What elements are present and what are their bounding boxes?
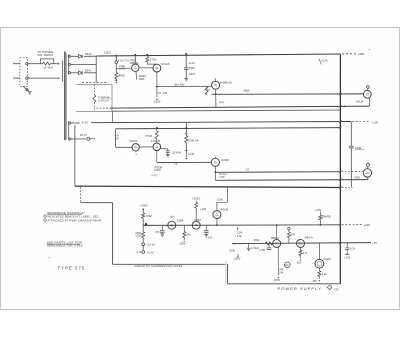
svg-text:8600: 8600: [119, 73, 126, 77]
error amplifier tube V3 6AW8: [212, 81, 220, 89]
svg-text:LOCK: LOCK: [154, 168, 161, 172]
bus junction at L9: [339, 187, 341, 189]
secondary terminal 2: [68, 63, 70, 65]
wire resistor to row A: [142, 218, 144, 225]
svg-text:+350: +350: [358, 52, 365, 56]
V11 feed from ground return: [227, 187, 229, 203]
bus junction at L4: [339, 121, 341, 123]
bus junction at L3: [339, 105, 341, 107]
ground stub on row B: [248, 244, 250, 248]
svg-text:6B8-G: 6B8-G: [271, 236, 280, 240]
svg-text:OB2W: OB2W: [130, 61, 139, 65]
svg-text:+225: +225: [321, 58, 328, 62]
junction blob at row A: [145, 223, 147, 225]
svg-text:6AN8: 6AN8: [221, 207, 229, 211]
svg-text:6.3V: 6.3V: [82, 120, 88, 124]
svg-text:+: +: [369, 47, 371, 51]
heater winding 6.3V: [68, 121, 70, 140]
V7 top stub: [214, 156, 216, 158]
V2 cathode lead down: [156, 72, 158, 87]
amplifier tube V12: [273, 240, 281, 248]
line-input terminal stubs: [13, 63, 20, 65]
svg-text:5700: 5700: [150, 58, 157, 62]
thermal cutout enclosure box: [76, 85, 112, 112]
regulated line A: [215, 171, 340, 174]
wire after fuse: [50, 63, 58, 65]
V8 lead to ground bus: [367, 177, 369, 180]
svg-text:+ 150: + 150: [344, 256, 351, 260]
V6 cathode lead down to output line: [156, 151, 158, 163]
svg-text:2x10: 2x10: [189, 61, 195, 65]
V12 cathode chain down: [277, 248, 279, 276]
glow-discharge tube V1 OB2: [132, 64, 139, 71]
svg-text:CUTOUT: CUTOUT: [98, 99, 110, 103]
transformer primary winding: [62, 61, 64, 82]
coupling cap C724: [268, 243, 270, 247]
svg-text:+225: +225: [364, 223, 371, 227]
arrowhead at row B left end: [233, 243, 235, 245]
amplifier tube V5 6AU6: [132, 144, 139, 151]
note line 3 with diamond: [43, 218, 46, 221]
svg-text:LINE: LINE: [355, 146, 361, 150]
svg-text:TO -150: TO -150: [158, 91, 168, 95]
wire resistor to end: [115, 78, 117, 81]
svg-text:C601: C601: [189, 72, 196, 76]
ground at power entry: [28, 91, 32, 93]
wire diode V662 to node: [84, 72, 96, 74]
wire corner from dashed drop: [81, 202, 113, 204]
heater distribution line: [91, 122, 351, 123]
svg-text:6AN8: 6AN8: [221, 158, 229, 162]
series tube V13: [297, 240, 305, 248]
feed wire down: [142, 208, 144, 213]
V3 top stub: [215, 79, 217, 82]
svg-text:PARASITIC SUPPRESSOR NOTES: PARASITIC SUPPRESSOR NOTES: [135, 264, 183, 268]
auxiliary heater line: [113, 110, 341, 111]
bus junction at L8: [339, 179, 341, 181]
power switch SW601: [24, 87, 29, 92]
V3 cathode lead to feedback line: [215, 89, 217, 107]
wire lower primary: [28, 77, 58, 79]
svg-text:.05 KVA: .05 KVA: [172, 150, 182, 154]
svg-text:575: 575: [334, 288, 339, 292]
svg-text:+: +: [48, 255, 50, 259]
6.3V heater line stub from winding: [71, 122, 78, 124]
svg-text:Y2: Y2: [174, 162, 178, 166]
svg-text:1/2W: 1/2W: [119, 67, 125, 70]
svg-text:-150V: -150V: [273, 278, 280, 282]
lower heater stub with pilot lamp: [71, 138, 86, 140]
wire to test point 2: [142, 246, 144, 251]
rectifier tube V14 OD3 double circle: [318, 243, 320, 259]
amplifier tube V6 12AU6: [153, 143, 161, 151]
heavy ground return line: [75, 186, 340, 187]
diamond symbol after title: [327, 285, 332, 290]
bus junction at rowA: [339, 224, 341, 226]
wire bus to terminal: [115, 56, 117, 61]
svg-text:6AU6: 6AU6: [356, 100, 364, 104]
heater takeoff terminal: [115, 61, 118, 64]
row A dashed continuation: [342, 224, 362, 226]
screen resistor R612 4700: [205, 86, 208, 94]
svg-text:+225: +225: [315, 208, 322, 212]
V6 plate wire right: [161, 148, 168, 150]
divider resistor R704: [142, 225, 144, 231]
svg-text:560k: 560k: [254, 238, 260, 242]
svg-text:4.7k: 4.7k: [136, 250, 142, 254]
svg-text:5642: 5642: [85, 69, 92, 73]
svg-text:-150V: -150V: [179, 243, 186, 246]
wire V1 to V2: [139, 67, 153, 69]
wire secondary to diode V662: [70, 72, 78, 74]
V7 cathode lead down: [214, 166, 216, 180]
svg-text:33k: 33k: [186, 233, 191, 237]
wire secondary to diode V652: [70, 55, 78, 57]
svg-text:1K: 1K: [207, 88, 210, 92]
V13 cathode resistor: [300, 248, 302, 251]
svg-text:PILOT: PILOT: [80, 134, 88, 137]
V8 top terminal: [366, 163, 369, 166]
svg-text:4700 1W: 4700 1W: [188, 139, 199, 143]
bleeder end terminal: [115, 79, 117, 81]
svg-text:ATTACHED AT PWR CHASSIS REAR: ATTACHED AT PWR CHASSIS REAR: [47, 218, 102, 222]
svg-text:SPARE: SPARE: [322, 215, 331, 219]
arrow up on feed: [142, 208, 144, 210]
cap and ground right of V10: [205, 225, 207, 230]
svg-text:+12.6V: +12.6V: [147, 243, 156, 247]
heater winding terminal upper: [69, 122, 71, 124]
svg-text:100k: 100k: [139, 77, 145, 81]
V14 cathode resistor: [318, 268, 320, 271]
svg-text:6B4-A: 6B4-A: [305, 236, 313, 240]
capacitor on line x=351: [350, 122, 352, 146]
svg-text:+75: +75: [372, 241, 377, 245]
regulator tube V10 12B4 parallel: [192, 221, 200, 229]
output line to cathode follower: [157, 161, 211, 163]
svg-text:+ (c): + (c): [151, 173, 157, 177]
svg-text:+300V: +300V: [140, 204, 148, 208]
thermal cutout element wire: [93, 85, 95, 95]
wire to regulator tube V1 grid: [116, 67, 131, 69]
svg-text:5700: 5700: [146, 134, 153, 138]
rectifier diode V652: [79, 55, 83, 59]
junction at screen line: [156, 86, 158, 88]
decoupling cap C702: [161, 225, 163, 230]
ground of filter cap: [184, 78, 188, 80]
second distribution line: [116, 128, 340, 129]
note line 2 with diamond: [43, 214, 46, 217]
svg-text:6AU6: 6AU6: [130, 139, 138, 143]
arrow into transformer upper: [58, 63, 60, 65]
svg-text:+(w): +(w): [219, 101, 224, 104]
svg-text:(a)+: (a)+: [170, 215, 175, 219]
svg-text:3.9M: 3.9M: [146, 214, 153, 218]
arrow to -150V: [277, 277, 279, 279]
svg-text:30A 40V: 30A 40V: [174, 83, 184, 87]
series resistor R724 on row B: [265, 242, 272, 245]
wire diode to +350 bus: [84, 55, 96, 57]
bus junction at L2: [339, 93, 341, 95]
svg-text:+225: +225: [200, 207, 207, 211]
cathode resistor column R716: [183, 225, 185, 231]
wire bus to filter cap: [185, 54, 187, 68]
svg-text:1/2W: 1/2W: [135, 234, 142, 238]
+350V unregulated bus: [96, 54, 340, 56]
arrow into transformer lower: [58, 77, 60, 79]
svg-text:1.6M: 1.6M: [259, 248, 265, 252]
svg-text:1W: 1W: [115, 137, 119, 141]
svg-text:5.6k: 5.6k: [237, 234, 243, 238]
plug terminal upper: [26, 63, 28, 65]
regulated line B: [215, 179, 368, 182]
svg-text:+150: +150: [219, 176, 225, 179]
regulated -150 sense line: [96, 107, 110, 109]
svg-text:1.0uF: 1.0uF: [206, 235, 213, 239]
dropping resistor R608 5700: [146, 54, 148, 56]
svg-text:2.2M: 2.2M: [188, 152, 195, 156]
svg-text:560k: 560k: [244, 89, 251, 93]
svg-text:450V: 450V: [189, 66, 195, 70]
wire down left side of low-voltage section: [112, 203, 114, 265]
svg-text:SW. SW601: SW. SW601: [37, 53, 53, 57]
rectifier diode V662: [79, 71, 83, 75]
thermal cutout element: [93, 95, 96, 103]
heater winding terminal lower: [69, 138, 71, 140]
wire to test point 1: [142, 238, 144, 243]
feedback line to series tube: [212, 93, 364, 95]
divider column x=186 middle band: [185, 122, 187, 135]
svg-text:Y2: Y2: [246, 167, 250, 171]
junction on bus at bleeder: [115, 55, 117, 57]
wire node down to thermal cutout: [95, 56, 97, 82]
power plug P601 (dashed box): [20, 58, 28, 87]
bleeder resistor R606: [115, 73, 118, 79]
V1 cathode lead down: [135, 71, 138, 79]
plug terminal lower: [26, 77, 28, 79]
wire along bottom of notes: [113, 263, 228, 265]
transformer HV secondary winding: [68, 55, 70, 75]
regulator tube V9 12B4: [168, 221, 176, 229]
bus junction at L7: [339, 171, 341, 173]
row A supply line: [143, 224, 340, 227]
bus junction at rowB: [339, 242, 341, 244]
svg-text:5642: 5642: [85, 52, 92, 56]
svg-text:1A 3AG: 1A 3AG: [43, 66, 54, 70]
series tube V4 6AU6 envelope: [363, 90, 371, 98]
secondary terminal 3: [68, 72, 70, 74]
heater line dashed end and +100 label: [352, 120, 370, 122]
bus dashed continuation right: [342, 53, 357, 55]
fuse F601: [43, 62, 51, 65]
comparator tube V11 6AN8: [213, 211, 221, 219]
junction on bus at filter: [185, 53, 187, 55]
output terminal tube V8: [363, 169, 371, 177]
fuse bypass loop: [40, 59, 53, 64]
arrow at bus on sense line: [343, 105, 345, 107]
wire from winding down left side: [74, 125, 76, 186]
svg-text:6AU5: 6AU5: [323, 257, 331, 261]
coupling capacitor C632: [167, 149, 169, 151]
svg-text:12B4: 12B4: [177, 218, 184, 222]
V11 cathode to row A: [216, 219, 218, 226]
supply box bottom edge: [228, 283, 341, 285]
resistor R702 3.9M: [142, 213, 145, 218]
svg-text:47k: 47k: [303, 251, 308, 255]
bus junction at L5: [339, 127, 341, 129]
transformer T601 core: [64, 52, 66, 141]
svg-text:-150V: -150V: [153, 100, 161, 104]
svg-text:6AW8,(A): 6AW8,(A): [220, 80, 232, 84]
V12 plate lead to row A: [276, 225, 278, 239]
wire left leg to V5: [116, 146, 132, 148]
svg-text:150k: 150k: [217, 197, 223, 201]
svg-text:8.2k: 8.2k: [350, 246, 356, 250]
svg-text:12B4: 12B4: [194, 218, 201, 222]
svg-text:1W: 1W: [279, 270, 283, 274]
grid stub x=289: [288, 228, 290, 230]
wire bus to V1 top: [134, 54, 136, 56]
thermal cutout dashed feed line: [82, 82, 108, 84]
svg-text:1.2k: 1.2k: [322, 272, 328, 276]
test point terminal 1: [142, 243, 145, 246]
test point terminal 2: [142, 251, 145, 254]
svg-text:POWER SUPPLY: POWER SUPPLY: [278, 286, 322, 291]
cathode follower tube V7 6AN8: [211, 158, 219, 166]
V2 lead to -150 reference: [156, 87, 158, 98]
wire V5 to V6: [139, 146, 153, 148]
svg-text:OC3/A: OC3/A: [161, 62, 170, 66]
main vertical bus -150V: [339, 54, 341, 284]
svg-text:12AU6: 12AU6: [151, 139, 161, 143]
filter capacitor C601: [184, 67, 188, 69]
regulator section left leg: [115, 129, 117, 148]
plate resistor R632: [156, 127, 158, 129]
svg-text:+6.3V: +6.3V: [147, 250, 154, 254]
glow-discharge tube V2 OC3: [153, 64, 161, 72]
screen supply line: [157, 85, 212, 87]
wire secondary center tap: [70, 64, 96, 66]
row B output line: [232, 243, 371, 244]
faint scan streak: [225, 262, 227, 284]
svg-text:-150: -150: [312, 279, 318, 283]
wire resistor to V2 top: [147, 62, 157, 64]
wire terminal down: [115, 64, 117, 73]
svg-text:-150V: -150V: [233, 257, 240, 261]
dashed drop to low voltage section: [80, 187, 82, 203]
svg-text:120V: 120V: [104, 50, 111, 54]
svg-text:470: 470: [155, 231, 160, 234]
V4 cathode lead to sense line: [369, 98, 371, 106]
svg-text:ORD: ORD: [354, 176, 360, 180]
parasitic suppressor circled 100: [285, 262, 291, 268]
svg-text:5.6M: 5.6M: [229, 248, 236, 252]
wire cap to ground: [185, 69, 187, 78]
svg-text:100: 100: [284, 264, 289, 267]
snubber stub right of bus: [346, 243, 348, 247]
V4 plate cap terminal: [367, 86, 370, 89]
svg-text:+100: +100: [372, 121, 379, 125]
svg-text:+300V: +300V: [192, 197, 200, 201]
svg-text:-150: -150: [296, 260, 302, 264]
secondary terminal 1: [68, 55, 70, 57]
wire upper primary: [28, 63, 42, 65]
svg-text:47k: 47k: [291, 233, 296, 237]
wire down to supply box: [227, 264, 229, 284]
svg-text:TYPE 575: TYPE 575: [58, 266, 86, 271]
